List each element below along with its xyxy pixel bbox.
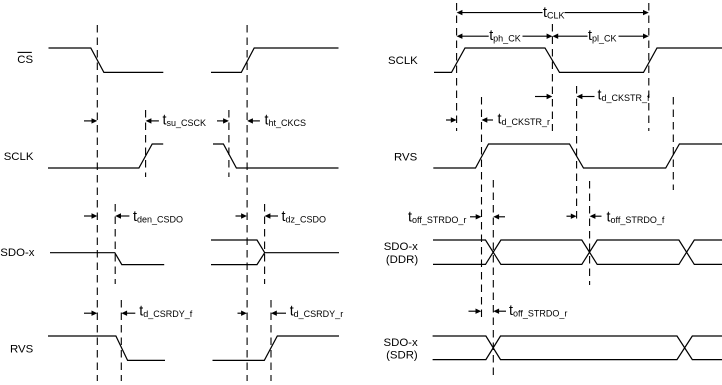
RVS waveform segment 1 (high, falling edge at L7) xyxy=(48,336,165,360)
svg-text:(SDR): (SDR) xyxy=(386,349,418,361)
svg-text:tden_CSDO: tden_CSDO xyxy=(133,209,183,225)
svg-text:tdz_CSDO: tdz_CSDO xyxy=(282,209,327,225)
arrow to L6 (dz end) xyxy=(265,213,278,218)
svg-text:CS: CS xyxy=(17,54,33,66)
dashed guide line C (SCLK 2nd rising edge, x=648.8) xyxy=(648,3,650,131)
RVS waveform segment 2 (low, rising edge at L8) xyxy=(213,336,340,360)
dashed guide line L1 (CS falling edge, x=97) xyxy=(96,25,98,381)
dashed guide line D (RVS rising edge, x=481.5) xyxy=(481,97,483,317)
svg-text:toff_STRDO_r: toff_STRDO_r xyxy=(408,210,466,226)
arrow to L4 (hold end) xyxy=(247,118,260,123)
dashed guide line L2 (SCLK rising edge, x=145.5) xyxy=(145,110,147,177)
arrow to B (CKSTR_f start) xyxy=(535,94,552,99)
arrow to L8 (CSRDY_r end) xyxy=(271,311,286,316)
SCLK waveform segment 1 (low, rising edge at L2) xyxy=(48,144,163,168)
dashed guide line L6 (SDO-x enable edge, x=264.6) xyxy=(264,204,266,284)
arrow to G (off_STRDO_f end) xyxy=(590,214,602,219)
arrow to E (SDR off_STRDO_r end) xyxy=(493,309,506,314)
dashed guide line B (SCLK falling edge, x=552.4) xyxy=(551,24,553,131)
arrow to L5 (den end) xyxy=(115,213,129,218)
svg-text:tpl_CK: tpl_CK xyxy=(588,28,617,44)
dashed guide line A (SCLK rising edge, x=456.6) xyxy=(456,3,458,131)
arrow to L4 (dz start) xyxy=(236,213,247,218)
SDO-x waveform segment 1 (driven mid, disable edge at L5) xyxy=(50,253,164,265)
dashed guide line L3 (SCLK falling edge, x=229) xyxy=(228,110,230,177)
SDO-x (DDR) bus waveform rails and X crossings xyxy=(433,240,722,264)
CS waveform segment 2 (low, rising edge at L4) xyxy=(211,48,339,72)
arrow to D (off_STRDO_r start) xyxy=(470,214,482,219)
CS waveform segment 1 (high, falling edge at L1) xyxy=(49,48,164,72)
svg-text:SDO-x: SDO-x xyxy=(0,247,34,259)
svg-text:SCLK: SCLK xyxy=(4,151,34,163)
svg-text:toff_STRDO_f: toff_STRDO_f xyxy=(607,209,665,225)
svg-text:td_CSRDY_r: td_CSRDY_r xyxy=(290,303,344,319)
SDO-x waveform segment 2 (data rails converge to mid at L6) xyxy=(211,240,339,265)
arrow to L4 (CSRDY_r start) xyxy=(238,311,247,316)
dashed guide line E (SDO transition, x=493.3) xyxy=(492,180,494,375)
dashed guide line L7 (RVS falling edge, x=121) xyxy=(120,300,122,381)
dashed guide line L4 (CS rising edge, x=247) xyxy=(246,25,248,381)
dimension arrow tCLK (right head) xyxy=(565,10,649,15)
SDO-x (SDR) bus waveform rails and X crossings xyxy=(433,336,722,360)
arrow to L1 (setup start) xyxy=(84,118,97,123)
svg-text:td_CSRDY_f: td_CSRDY_f xyxy=(139,303,193,319)
svg-text:tsu_CSCK: tsu_CSCK xyxy=(163,113,207,129)
arrow to L1 (CSRDY_f start) xyxy=(84,311,97,316)
svg-text:td_CKSTR_f: td_CKSTR_f xyxy=(598,87,651,103)
arrow to L3 (hold start) xyxy=(217,118,229,123)
label CS overline xyxy=(18,51,32,53)
dimension arrow tpl_CK (right head) xyxy=(619,34,649,39)
dimension arrow tpl_CK (left head) xyxy=(552,34,587,39)
arrow to L1 (den start) xyxy=(84,213,97,218)
dashed guide line L8 (RVS rising edge, x=271) xyxy=(270,300,272,381)
arrow to A (CKSTR_r start) xyxy=(446,117,457,122)
svg-text:toff_STRDO_r: toff_STRDO_r xyxy=(509,303,567,319)
svg-text:tht_CKCS: tht_CKCS xyxy=(265,113,307,129)
svg-text:(DDR): (DDR) xyxy=(386,254,418,266)
svg-text:SCLK: SCLK xyxy=(388,55,418,67)
dashed guide line L5 (SDO-x disable edge, x=115) xyxy=(114,204,116,284)
svg-text:SDO-x: SDO-x xyxy=(384,241,418,253)
arrow to L7 (CSRDY_f end) xyxy=(121,311,135,316)
arrow to E (off_STRDO_r end) xyxy=(493,214,505,219)
arrow to F (off_STRDO_f start) xyxy=(567,214,577,219)
dimension arrow tCLK (left head) xyxy=(457,10,543,15)
arrow to D (SDR off_STRDO_r start) xyxy=(469,309,482,314)
arrow to F (CKSTR_f end) xyxy=(577,94,595,99)
arrow to D (CKSTR_r end) xyxy=(482,117,494,122)
dimension arrow tph_CK (left head) xyxy=(457,34,489,39)
dashed guide line H (RVS 2nd rising edge, x=673.3) xyxy=(672,97,674,190)
dashed guide line G (SDO 2nd transition, x=589.6) xyxy=(589,181,591,285)
dashed guide line F (RVS falling edge, x=576.6) xyxy=(576,86,578,221)
svg-text:td_CKSTR_r: td_CKSTR_r xyxy=(498,111,551,127)
svg-text:tph_CK: tph_CK xyxy=(489,28,521,44)
svg-text:SDO-x: SDO-x xyxy=(384,337,418,349)
arrow to L2 (setup end) xyxy=(146,118,159,123)
SCLK waveform (right, two periods) xyxy=(434,48,722,72)
dimension arrow tph_CK (right head) xyxy=(523,34,553,39)
RVS waveform (right) xyxy=(433,144,722,168)
svg-text:tCLK: tCLK xyxy=(543,5,565,21)
SCLK waveform segment 2 (high, falling edge at L3) xyxy=(213,144,339,168)
svg-text:RVS: RVS xyxy=(394,151,418,163)
svg-text:RVS: RVS xyxy=(10,343,34,355)
